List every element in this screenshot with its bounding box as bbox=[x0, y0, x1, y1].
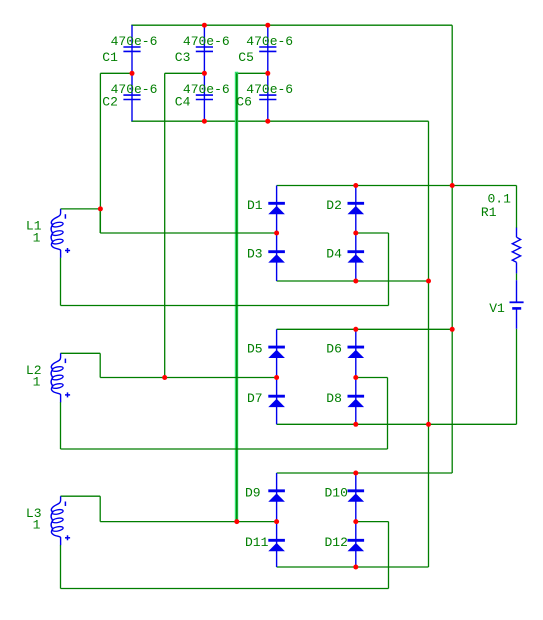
svg-text:D6: D6 bbox=[326, 342, 342, 357]
wire bridge 1 bottom rail bbox=[277, 280, 429, 282]
wire phase B vertical bbox=[164, 73, 166, 377]
wire L3 bottom return bbox=[61, 588, 389, 590]
diode D6 bbox=[348, 347, 365, 358]
svg-text:470e-6: 470e-6 bbox=[183, 34, 230, 49]
wire R1 to V1 link bbox=[516, 273, 518, 280]
wire C5-C6 midpoint to phase C drop bbox=[237, 72, 268, 74]
svg-text:1: 1 bbox=[33, 518, 41, 533]
wire phase A vertical bbox=[99, 73, 101, 233]
svg-text:D5: D5 bbox=[247, 342, 263, 357]
node D5-D7 junction bbox=[274, 375, 279, 380]
inductor L3 bbox=[51, 496, 70, 545]
capacitor C3 bbox=[196, 25, 213, 73]
node D9-D11 junction bbox=[274, 519, 279, 524]
diode D1 bbox=[268, 203, 285, 214]
wire bridge 1 right ac stub bbox=[356, 232, 389, 234]
node bridge2 top / right bus bbox=[450, 327, 455, 332]
bridge 2 right branch lead bbox=[355, 329, 357, 424]
wire right bus vertical bbox=[451, 25, 453, 473]
wire L2 top terminal to corner bbox=[61, 352, 101, 354]
diode D3 bbox=[268, 252, 285, 263]
dc source V1 bbox=[510, 280, 524, 329]
wire R1 top lead bbox=[516, 186, 518, 229]
node bridge3 bottom / D12 bbox=[353, 565, 358, 570]
wire bridge 1 return vertical bbox=[388, 233, 390, 306]
bridge 3 right branch lead bbox=[355, 473, 357, 567]
svg-text:D10: D10 bbox=[325, 485, 348, 500]
wire C3-C4 midpoint to phase B drop bbox=[165, 72, 205, 74]
svg-text:D3: D3 bbox=[247, 246, 263, 261]
wire L2 bottom return bbox=[61, 448, 388, 450]
wire bridge 3 top rail bbox=[277, 472, 453, 474]
node D2-D4 junction bbox=[353, 231, 358, 236]
node bridge3 top / D10 bbox=[353, 471, 358, 476]
wire top bus bbox=[131, 24, 452, 26]
wire dc-minus bus vertical bbox=[428, 121, 430, 567]
node bottom bus / C4 bbox=[202, 119, 207, 124]
diode D5 bbox=[268, 347, 285, 358]
node phase A / L1 bbox=[98, 206, 103, 211]
svg-text:C1: C1 bbox=[102, 50, 118, 65]
svg-text:D11: D11 bbox=[245, 535, 269, 550]
wire L2 bottom lead down bbox=[60, 402, 62, 449]
svg-text:470e-6: 470e-6 bbox=[111, 34, 158, 49]
svg-text:R1: R1 bbox=[481, 205, 497, 220]
wire bridge 3 right ac stub bbox=[356, 521, 389, 523]
svg-text:1: 1 bbox=[33, 230, 41, 245]
node phase C / L3 wire bbox=[234, 519, 239, 524]
node bridge1 top / right bus bbox=[450, 183, 455, 188]
diode D8 bbox=[348, 396, 365, 407]
capacitor C2 bbox=[123, 73, 140, 121]
wire corner down to bridge 1 ac input bbox=[99, 209, 101, 233]
wire bridge 2 return vertical bbox=[387, 378, 389, 450]
svg-text:V1: V1 bbox=[489, 301, 505, 316]
diode D2 bbox=[348, 203, 365, 214]
diode D11 bbox=[268, 540, 285, 551]
node bridge1 bottom / D4 bbox=[353, 279, 358, 284]
svg-text:D7: D7 bbox=[247, 391, 263, 406]
node bridge2 top / D6 bbox=[353, 327, 358, 332]
wire phase C vertical (highlighted) bbox=[235, 72, 239, 522]
wire bridge 1 top rail (dc+) bbox=[277, 185, 517, 187]
diode D12 bbox=[348, 540, 365, 551]
node C5-C6 midpoint bbox=[265, 71, 270, 76]
wire bridge 1 left ac input rail bbox=[100, 232, 276, 234]
svg-text:470e-6: 470e-6 bbox=[246, 34, 293, 49]
diode D10 bbox=[348, 491, 365, 502]
wire bridge 2 bottom rail (to V1 minus) bbox=[277, 423, 517, 425]
svg-text:C3: C3 bbox=[175, 50, 191, 65]
wire bridge 2 left ac input rail bbox=[100, 377, 276, 379]
svg-text:D8: D8 bbox=[326, 391, 342, 406]
svg-text:C2: C2 bbox=[102, 94, 118, 109]
node D10-D12 junction bbox=[353, 519, 358, 524]
capacitor C4 bbox=[196, 73, 213, 121]
svg-text:470e-6: 470e-6 bbox=[246, 82, 293, 97]
capacitor C5 bbox=[259, 25, 276, 73]
node top bus / C3 bbox=[202, 23, 207, 28]
bridge 1 right branch lead bbox=[355, 186, 357, 282]
node bottom bus / C6 bbox=[265, 119, 270, 124]
wire bridge 3 return vertical bbox=[388, 522, 390, 589]
bridge 3 left branch lead bbox=[276, 473, 278, 567]
diode D4 bbox=[348, 252, 365, 263]
node phase B / L2 wire bbox=[162, 375, 167, 380]
wire C1-C2 midpoint to phase A drop bbox=[100, 72, 132, 74]
wire bridge 2 top rail bbox=[277, 328, 453, 330]
node bridge2 bottom / dc bus bbox=[426, 422, 431, 427]
svg-text:C6: C6 bbox=[236, 94, 252, 109]
node D6-D8 junction bbox=[353, 375, 358, 380]
node bridge1 bottom / dc bus bbox=[426, 279, 431, 284]
bridge 2 left branch lead bbox=[276, 329, 278, 424]
svg-text:D2: D2 bbox=[326, 198, 342, 213]
node top bus / C5 bbox=[265, 23, 270, 28]
svg-text:D4: D4 bbox=[326, 246, 342, 261]
wire L3 bottom lead down bbox=[60, 545, 62, 589]
wire corner down to bridge 3 ac input bbox=[99, 496, 101, 521]
node C3-C4 midpoint bbox=[202, 71, 207, 76]
inductor L1 bbox=[51, 209, 70, 258]
node C1-C2 midpoint bbox=[130, 71, 135, 76]
wire L1 bottom return bbox=[61, 305, 389, 307]
svg-text:1: 1 bbox=[33, 375, 41, 390]
svg-text:D12: D12 bbox=[325, 535, 348, 550]
wire L1 top terminal to corner bbox=[61, 208, 101, 210]
capacitor C1 bbox=[123, 25, 140, 73]
wire corner down to bridge 2 ac input bbox=[99, 353, 101, 377]
diode D7 bbox=[268, 396, 285, 407]
svg-text:C4: C4 bbox=[175, 94, 191, 109]
wire bridge 2 right ac stub bbox=[356, 377, 388, 379]
wire capacitor bottom bus bbox=[131, 120, 428, 122]
wire L3 top terminal to corner bbox=[61, 495, 101, 497]
wire bridge 3 left ac input rail bbox=[100, 521, 276, 523]
wire bridge 3 bottom rail bbox=[277, 566, 429, 568]
wire V1 minus down bbox=[516, 329, 518, 425]
node D1-D3 junction bbox=[274, 231, 279, 236]
svg-text:C5: C5 bbox=[238, 50, 254, 65]
capacitor C6 bbox=[259, 73, 276, 121]
wire L1 bottom lead down bbox=[60, 258, 62, 306]
svg-text:D1: D1 bbox=[247, 198, 263, 213]
node bridge2 bottom / D8 bbox=[353, 422, 358, 427]
bridge 1 left branch lead bbox=[276, 186, 278, 282]
resistor R1 bbox=[512, 228, 520, 274]
inductor L2 bbox=[51, 353, 70, 402]
svg-text:D9: D9 bbox=[245, 485, 261, 500]
node bridge1 top / D2 bbox=[353, 183, 358, 188]
diode D9 bbox=[268, 491, 285, 502]
